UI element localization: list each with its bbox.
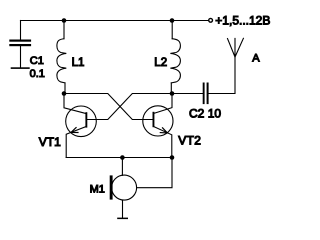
transistor VT1 — [66, 106, 97, 137]
svg-text:C1: C1 — [30, 55, 44, 67]
ground bar under M1 — [117, 218, 128, 220]
wire VT2 collector — [154, 94, 172, 114]
node junction dot top of L1 — [62, 18, 67, 23]
wire L1 bottom stem — [64, 83, 66, 94]
antenna A — [228, 38, 244, 57]
wire emitter rail — [66, 157, 172, 159]
microphone M1 — [112, 175, 137, 200]
svg-text:VT1: VT1 — [39, 135, 61, 149]
wire L1 top stem — [63, 21, 65, 39]
transistor VT2 — [143, 106, 173, 136]
svg-text:10: 10 — [208, 106, 222, 120]
wire VT1 emitter — [66, 127, 85, 158]
svg-text:VT2: VT2 — [178, 134, 201, 148]
node junction dot L2 bottom / VT2 collector — [170, 91, 175, 96]
power terminal circle — [209, 18, 213, 22]
wire VT1 collector — [64, 94, 86, 114]
svg-text:A: A — [252, 52, 260, 64]
inductor L2 — [170, 39, 180, 83]
wire C1 lower stem — [20, 46, 22, 67]
svg-text:+1,5...12В: +1,5...12В — [215, 13, 270, 27]
wire mic right lead — [137, 158, 172, 188]
node junction dot L1 bottom / VT1 collector — [62, 91, 67, 96]
svg-text:0.1: 0.1 — [30, 68, 45, 80]
svg-text:L2: L2 — [154, 57, 167, 69]
ground bar under C1 — [11, 67, 30, 69]
wire L2 bottom stem — [170, 83, 172, 94]
svg-text:L1: L1 — [72, 57, 85, 69]
wire VT2 emitter — [154, 127, 171, 158]
wire C2 to antenna — [209, 57, 235, 94]
node junction dot mic top — [120, 155, 125, 160]
inductor L1 — [57, 39, 66, 83]
VT2 emitter arrow — [160, 128, 167, 133]
wire mic top lead — [121, 158, 123, 176]
svg-text:M1: M1 — [90, 184, 105, 196]
node junction dot VT2 emitter — [170, 155, 175, 160]
wire top supply rail — [21, 20, 209, 22]
capacitor C1 — [9, 40, 31, 47]
wire cross-coupling VT1 base to L2 node — [87, 94, 172, 120]
wire L2 top stem — [171, 21, 173, 39]
wire left drop to C1 — [20, 21, 22, 40]
VT1 emitter arrow — [71, 128, 78, 133]
node junction dot top of L2 — [170, 18, 175, 23]
wire cross-coupling L1 node to VT2 base — [64, 94, 153, 120]
svg-text:C2: C2 — [189, 106, 205, 120]
wire to C2 — [172, 93, 203, 95]
wire mic bottom lead — [122, 200, 124, 218]
capacitor C2 — [203, 83, 209, 105]
